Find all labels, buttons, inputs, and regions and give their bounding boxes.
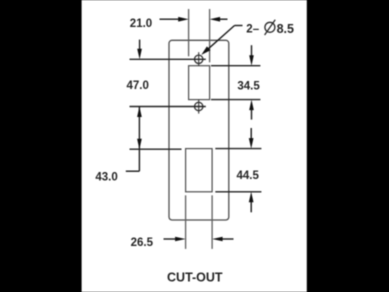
dim 26.5 left arrow xyxy=(164,238,178,240)
top connector aperture rectangle xyxy=(189,66,210,100)
svg-text:CUT-OUT: CUT-OUT xyxy=(167,271,223,285)
svg-text:26.5: 26.5 xyxy=(131,237,154,249)
dim 47.0 top arrow xyxy=(139,40,141,51)
white drawing sheet xyxy=(82,0,307,292)
dim 34.5 top arrow xyxy=(251,45,253,56)
dim 47.0 upper reference line (through top hole) xyxy=(130,58,206,60)
dim 21.0 right arrow xyxy=(219,18,228,20)
dim 43.0 down arrowhead xyxy=(137,139,142,150)
svg-text:34.5: 34.5 xyxy=(237,81,260,93)
svg-text:2–: 2– xyxy=(246,23,259,35)
dim 34.5 upper reference line xyxy=(211,65,260,67)
dim 34.5 bottom arrow xyxy=(251,110,253,120)
dim 26.5 extension line right xyxy=(211,195,213,249)
hole bottom centerline vertical xyxy=(198,100,200,114)
dim 21.0 extension line right xyxy=(209,9,211,62)
svg-text:44.5: 44.5 xyxy=(237,170,260,182)
svg-text:21.0: 21.0 xyxy=(130,18,152,30)
dim 43.0 lower reference line xyxy=(130,148,182,150)
dim 44.5 top arrow xyxy=(250,128,252,139)
dim 44.5 bottom arrow xyxy=(250,202,252,213)
svg-text:47.0: 47.0 xyxy=(127,80,149,92)
dim 44.5 upper reference line xyxy=(215,148,261,150)
dim 47.0 lower reference line (through bottom hole) xyxy=(130,106,206,108)
leader 2x holes diagonal xyxy=(205,26,235,53)
bottom aperture rectangle xyxy=(186,149,213,192)
svg-text:43.0: 43.0 xyxy=(95,171,117,183)
hole top centerline vertical xyxy=(198,52,200,66)
dim 26.5 extension line left xyxy=(185,195,187,249)
svg-text:8.5: 8.5 xyxy=(277,22,294,36)
diameter symbol xyxy=(265,22,275,32)
leader 2x holes horizontal segment xyxy=(235,25,243,27)
dim 21.0 left arrow xyxy=(160,18,181,20)
dim 26.5 right arrow xyxy=(222,238,234,240)
hole bottom circle xyxy=(195,102,203,110)
dim 34.5 lower reference line xyxy=(211,99,260,101)
cut-out outline rectangle xyxy=(169,40,229,220)
dim 44.5 lower reference line xyxy=(215,191,261,193)
leader arrowhead at hole xyxy=(201,46,210,55)
hole top circle xyxy=(195,55,203,63)
dim 43.0 up arrowhead xyxy=(137,107,142,118)
dim 43.0 dimension line with inside arrows and leader xyxy=(138,107,140,172)
dim 43.0 leader horizontal xyxy=(126,170,140,172)
dim 21.0 extension line left xyxy=(188,9,190,56)
